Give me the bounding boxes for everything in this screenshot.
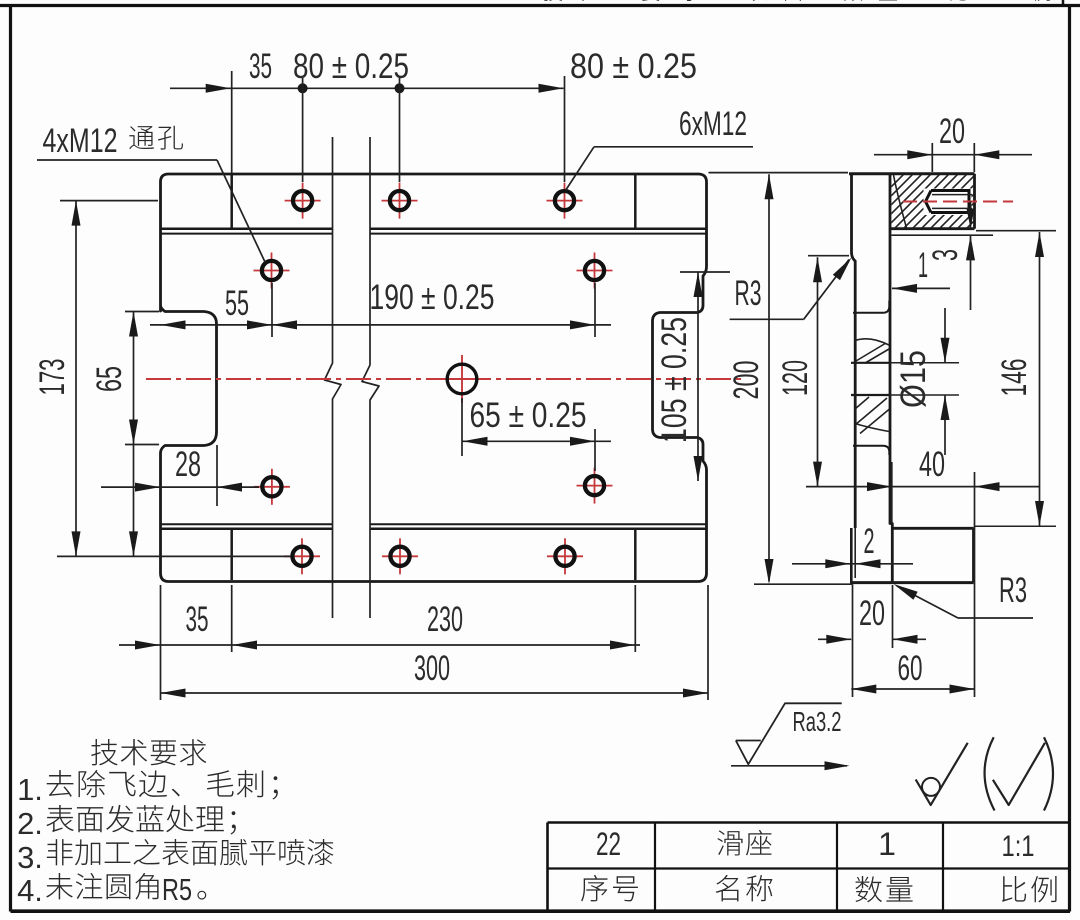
svg-text:Ø15: Ø15	[894, 350, 933, 408]
svg-text:60: 60	[898, 649, 923, 688]
bolt hole 6	[254, 486, 290, 488]
flange underside thin line (3mm lip)	[892, 234, 994, 236]
svg-text:40: 40	[919, 445, 945, 484]
dim 35 / 230	[119, 644, 640, 646]
surface finish Ra3.2 with leader	[736, 703, 842, 764]
dim o15	[944, 308, 946, 363]
dim 300	[161, 692, 709, 694]
thread hole (M12)	[926, 189, 970, 214]
bottom flange lines	[161, 523, 334, 525]
svg-text:35: 35	[249, 47, 272, 86]
main view horizontal centerline (red)	[146, 378, 745, 380]
dim 20 (top)	[874, 154, 1032, 156]
svg-text:20: 20	[939, 112, 965, 151]
surface symbol: checked with circle	[916, 743, 968, 805]
bolt hole 10	[547, 555, 583, 557]
thread hole white backing	[924, 189, 972, 216]
lower hatch patch boundary (wavy)	[855, 424, 889, 432]
section bottom edge	[850, 581, 974, 584]
technical requirements heading	[91, 739, 117, 765]
break line left	[325, 137, 342, 618]
svg-text:105 ± 0.25: 105 ± 0.25	[655, 317, 694, 443]
bottom flange right edge	[972, 528, 975, 582]
svg-text:1: 1	[918, 246, 928, 285]
svg-text:22: 22	[596, 826, 621, 862]
svg-text:4.: 4.	[17, 873, 43, 908]
svg-text:300: 300	[414, 649, 450, 688]
svg-text:1:1: 1:1	[1002, 830, 1035, 863]
svg-text:65: 65	[90, 366, 129, 392]
svg-text:R3: R3	[999, 571, 1027, 610]
svg-text:2: 2	[864, 522, 875, 561]
clipped top table text row	[544, 0, 1050, 1]
lower hatch lines	[855, 397, 890, 434]
bolt hole 5	[577, 270, 613, 272]
dim 146	[1039, 232, 1041, 526]
dim 28	[101, 486, 259, 488]
svg-text:230: 230	[427, 600, 463, 639]
svg-text:200: 200	[727, 361, 766, 400]
upper hatch patch boundary (wavy)	[855, 339, 889, 345]
svg-text:4xM12: 4xM12	[43, 122, 118, 160]
section bottom-left thick edge	[850, 528, 853, 583]
svg-text:65 ± 0.25: 65 ± 0.25	[470, 396, 587, 435]
bolt hole 4	[254, 270, 290, 272]
center hole	[438, 378, 486, 380]
dim 20 (bottom)	[818, 638, 851, 640]
svg-text:190 ± 0.25: 190 ± 0.25	[370, 278, 495, 317]
svg-text:80 ± 0.25: 80 ± 0.25	[293, 47, 409, 86]
bar right edge	[890, 174, 892, 583]
svg-text:35: 35	[186, 600, 209, 639]
surface symbol: (check)	[993, 743, 1045, 805]
top flange lines	[161, 227, 334, 230]
svg-text:28: 28	[175, 445, 201, 484]
dim chain 35 / 80±0.25 / 80±0.25	[170, 87, 564, 89]
dim 105±0.25 (right notch)	[697, 272, 699, 481]
bolt hole 3	[547, 200, 583, 202]
bar interior: slot bottom line	[853, 446, 889, 455]
main view part outline	[161, 174, 707, 582]
local-section wavy boundary	[894, 175, 907, 228]
svg-text:146: 146	[995, 359, 1034, 397]
svg-text:3.: 3.	[17, 840, 43, 875]
hole top edge (o15)	[851, 362, 890, 364]
dim 60	[851, 688, 974, 690]
title row 2: 序号 名称 数量 比例	[581, 875, 607, 901]
dim 65 (notch)	[133, 312, 135, 557]
top flange bottom edge	[890, 227, 975, 230]
bolt hole 7	[577, 485, 613, 487]
bolt hole 9	[382, 555, 418, 557]
hole bottom edge (o15)	[851, 394, 890, 396]
bolt hole 2	[382, 200, 418, 202]
svg-text:20: 20	[859, 594, 885, 633]
thread hole red centerline	[903, 201, 1013, 203]
dim 3 (lip)	[970, 202, 972, 229]
dim 40	[806, 486, 1040, 488]
bottom flange top edge	[892, 527, 973, 530]
top flange right edge	[973, 174, 976, 229]
svg-text:120: 120	[776, 360, 815, 396]
svg-text:2.: 2.	[17, 806, 43, 841]
svg-text:1: 1	[878, 826, 896, 862]
svg-text:173: 173	[33, 359, 72, 396]
section top edge	[849, 172, 975, 175]
upper hatch lines	[856, 343, 889, 363]
svg-text:6xM12: 6xM12	[679, 105, 747, 143]
svg-text:Ra3.2: Ra3.2	[793, 706, 842, 737]
dim 65±0.25 (center hole)	[463, 440, 612, 442]
bar interior: slot top line	[853, 301, 889, 313]
dim 200	[768, 174, 770, 581]
svg-text:80 ± 0.25: 80 ± 0.25	[570, 47, 697, 86]
svg-text:R3: R3	[735, 274, 762, 313]
section view: left edge with R3 jog	[852, 174, 856, 528]
dim 120	[817, 257, 819, 486]
dim 2 (bottom lip)	[792, 563, 913, 565]
flange divider verticals	[230, 175, 233, 229]
bolt hole 8	[284, 555, 320, 557]
dim 173	[75, 201, 77, 557]
svg-text:1.: 1.	[17, 772, 43, 807]
break line right	[362, 137, 379, 618]
dim 55 and 190±0.25	[150, 324, 611, 326]
svg-text:3: 3	[926, 249, 965, 261]
svg-text:55: 55	[225, 284, 249, 323]
svg-text:R5: R5	[162, 872, 192, 907]
title block grid	[548, 821, 1070, 824]
bolt hole 1	[285, 200, 321, 202]
